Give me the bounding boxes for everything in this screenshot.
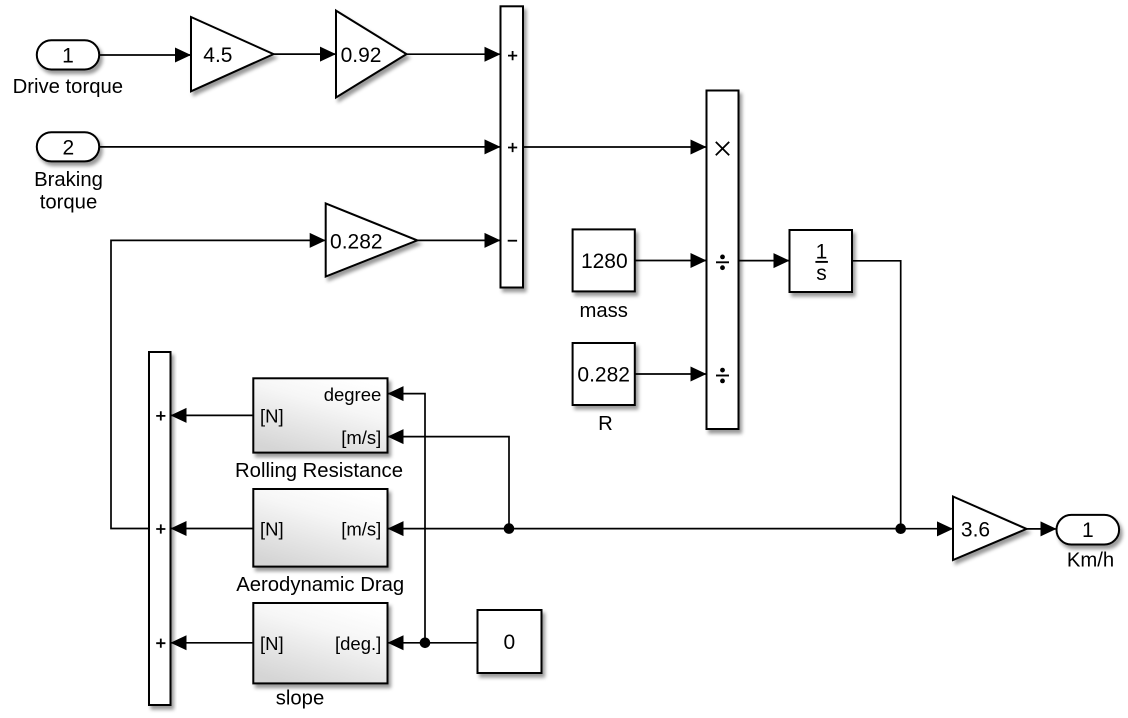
wire branch speed to Rolling Resistance m/s input (389, 437, 510, 529)
wire gain K3 to sum S1 input 3 (417, 239, 499, 241)
integrator U1 1/s (790, 230, 853, 292)
inport 2 Braking torque (34, 132, 103, 213)
svg-text:slope: slope (276, 688, 325, 710)
svg-text:[N]: [N] (260, 406, 284, 427)
product P1 (707, 91, 739, 430)
subsystem Rolling Resistance (235, 378, 403, 482)
constant mass 1280 (573, 229, 635, 322)
arrowhead into sum S1 input 2 (485, 139, 501, 154)
arrowhead into slope deg input (388, 635, 404, 650)
gain K3 0.282 (326, 203, 418, 276)
svg-text:3.6: 3.6 (961, 519, 990, 542)
arrowhead into sum S2 input 3 (171, 635, 187, 650)
svg-text:1: 1 (1082, 519, 1094, 542)
svg-text:mass: mass (579, 300, 627, 322)
arrowhead into gain K4 (937, 521, 953, 536)
wire constant mass to product P1 input 2 (635, 260, 706, 262)
gain K2 0.92 (336, 11, 407, 98)
svg-text:[N]: [N] (260, 633, 284, 654)
inport 1 Drive torque (13, 40, 123, 98)
svg-text:Braking: Braking (34, 169, 103, 191)
arrowhead into sum S1 input 1 (485, 47, 501, 62)
arrowhead into product P1 input 3 (691, 367, 707, 382)
svg-text:2: 2 (63, 136, 75, 159)
svg-text:Km/h: Km/h (1067, 549, 1114, 571)
node angle junction (420, 638, 431, 649)
svg-text:4.5: 4.5 (203, 44, 232, 67)
arrowhead into Rolling Resistance m/s input (388, 429, 404, 444)
arrowhead into outport Km/h (1041, 521, 1057, 536)
svg-text:[m/s]: [m/s] (341, 519, 381, 540)
arrowhead into sum S1 input 3 (485, 233, 501, 248)
subsystem slope (253, 603, 387, 710)
svg-text:1: 1 (62, 44, 74, 67)
wire gain K1 to gain K2 (274, 53, 336, 55)
node speed junction to Rolling Resistance branch (504, 523, 515, 534)
wire angle branch up to Rolling Resistance degree input (389, 394, 426, 643)
wire Drive torque to gain K1 (99, 54, 190, 56)
node speed junction at gain K4 branch (895, 523, 906, 534)
wire constant R to product P1 input 3 (635, 373, 706, 375)
wire integrator U1 output down to speed node (852, 261, 901, 529)
arrowhead into gain K2 (320, 47, 336, 62)
svg-text:0.282: 0.282 (330, 230, 383, 253)
arrowhead into sum S2 input 1 (171, 408, 187, 423)
svg-text:[deg.]: [deg.] (335, 633, 381, 654)
subsystem Aerodynamic Drag (236, 489, 404, 596)
arrowhead into integrator U1 (774, 253, 790, 268)
svg-text:0: 0 (503, 631, 515, 654)
svg-text:1: 1 (816, 240, 828, 263)
svg-text:1280: 1280 (581, 250, 628, 273)
wire slope N output to sum S2 input 3 (172, 642, 254, 644)
wire feedback: sum S2 output to gain K3 (111, 240, 325, 528)
arrowhead into product P1 input 2 (691, 253, 707, 268)
arrowhead into Rolling Resistance degree input (388, 386, 404, 401)
sum S1 (501, 6, 524, 287)
svg-text:[N]: [N] (260, 519, 284, 540)
wire sum S1 output to product P1 input 1 (523, 146, 706, 148)
constant R 0.282 (573, 343, 635, 435)
wire Rolling Resistance N output to sum S2 input 1 (172, 414, 254, 416)
svg-text:0.282: 0.282 (577, 364, 630, 387)
wire gain K4 to outport Km/h (1027, 528, 1056, 530)
svg-text:degree: degree (324, 384, 382, 405)
svg-text:torque: torque (40, 192, 98, 214)
gain K1 4.5 (191, 17, 274, 91)
arrowhead into gain K3 (310, 233, 326, 248)
svg-text:0.92: 0.92 (341, 44, 382, 67)
outport 1 Km/h (1057, 515, 1120, 572)
wire speed line to Aerodynamic Drag m/s input (389, 528, 901, 530)
wire Aerodynamic Drag N output to sum S2 input 2 (172, 528, 254, 530)
arrowhead into sum S2 input 2 (171, 521, 187, 536)
svg-text:s: s (816, 262, 827, 285)
wire product P1 to integrator U1 (739, 260, 789, 262)
wire speed node to gain K4 (901, 528, 952, 530)
svg-text:R: R (598, 413, 613, 435)
wire gain K2 to sum S1 input 1 (407, 53, 500, 55)
svg-text:[m/s]: [m/s] (341, 427, 381, 448)
arrowhead into Aerodynamic Drag m/s input (388, 521, 404, 536)
svg-text:Aerodynamic Drag: Aerodynamic Drag (236, 574, 404, 596)
svg-text:Drive torque: Drive torque (13, 76, 123, 98)
arrowhead into product P1 input 1 (691, 140, 707, 155)
sum S2 (149, 352, 171, 705)
gain K4 3.6 (953, 497, 1027, 561)
arrowhead into gain K1 (175, 48, 191, 63)
svg-text:Rolling Resistance: Rolling Resistance (235, 460, 403, 482)
wire angle: constant zero to slope deg input (389, 642, 478, 644)
wire Braking torque to sum S1 input 2 (99, 146, 500, 148)
constant zero 0 (478, 610, 542, 673)
